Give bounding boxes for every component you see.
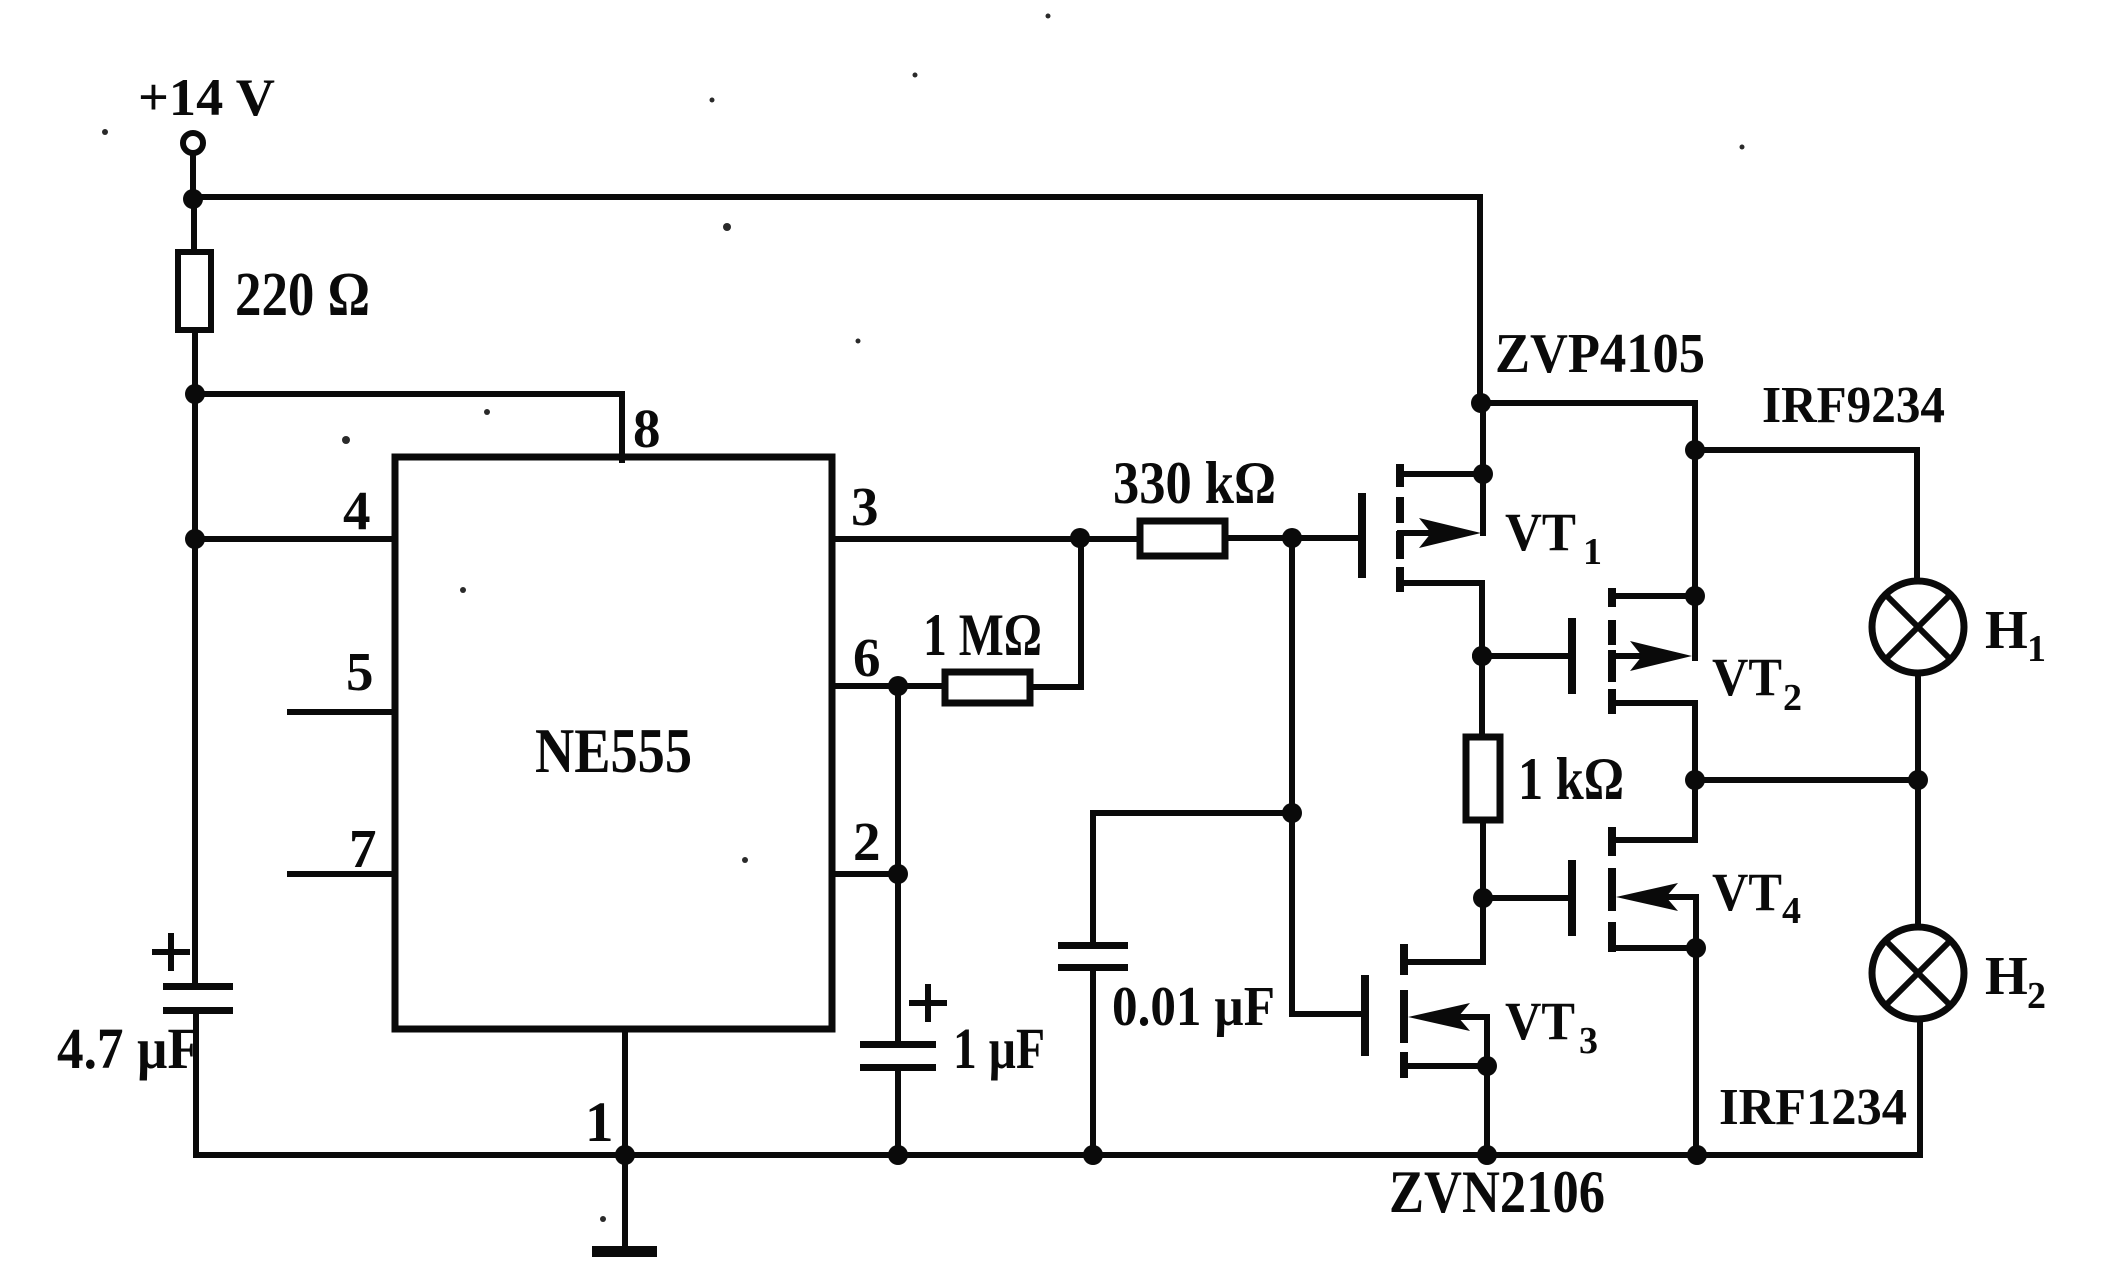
node VT4 source junction <box>1686 938 1706 958</box>
svg-text:IRF9234: IRF9234 <box>1762 377 1945 434</box>
wire H1 to mid node <box>1915 673 1921 927</box>
transistor VT3 bulk arrow <box>1440 1014 1487 1020</box>
wire R1 bottom down left bus <box>192 330 198 985</box>
node pin4 branch <box>185 529 205 549</box>
lamp H2 <box>1872 927 1964 1019</box>
node H1 branch <box>1685 440 1705 460</box>
transistor VT3 channel dashes <box>1400 944 1408 975</box>
transistor VT2 gate bar <box>1568 618 1576 694</box>
node pin1 rail junction <box>615 1145 635 1165</box>
power terminal +14V <box>183 133 203 153</box>
wire pin6 to pin2 vertical <box>895 686 901 1043</box>
node VT4 gate junction <box>1473 888 1493 908</box>
node VT2-VT4 lamp node <box>1685 770 1705 790</box>
svg-text:2: 2 <box>1783 677 1802 719</box>
node VT4 rail junction <box>1687 1145 1707 1165</box>
wire pin3 <box>832 536 1140 542</box>
svg-text:VT: VT <box>1505 991 1575 1051</box>
node C2 rail junction <box>888 1145 908 1165</box>
svg-text:1: 1 <box>585 1091 614 1154</box>
wire H2 to rail <box>1917 1019 1923 1155</box>
wire bottom ground rail <box>196 1152 1920 1158</box>
wire pin5 stub <box>290 709 395 715</box>
svg-text:4: 4 <box>343 480 371 541</box>
wire top supply rail <box>193 194 1480 200</box>
svg-text:VT: VT <box>1712 647 1782 707</box>
resistor 220 ohm <box>178 252 211 330</box>
resistor 1 Mohm <box>945 672 1030 703</box>
transistor VT3 ZVN2106 gate bar <box>1361 975 1369 1056</box>
svg-text:NE555: NE555 <box>535 715 692 786</box>
wire gate bus vertical <box>1289 538 1295 1014</box>
node VT2 top junction <box>1685 586 1705 606</box>
svg-text:1: 1 <box>2027 628 2046 670</box>
wire VT2 drain to VT4 drain <box>1692 703 1698 840</box>
transistor VT4 source contact <box>1612 945 1696 951</box>
svg-text:ZVP4105: ZVP4105 <box>1495 323 1705 385</box>
wire C3 top horizontal <box>1093 810 1292 816</box>
capacitor C1 4.7uF polarity plus <box>155 936 187 968</box>
svg-text:IRF1234: IRF1234 <box>1719 1079 1907 1136</box>
node C3 top junction <box>1282 803 1302 823</box>
wire drop to H branch <box>1692 403 1698 658</box>
node VT3 rail junction <box>1477 1145 1497 1165</box>
wire VT1 source up <box>1480 403 1486 533</box>
node ZVP4105 top junction <box>1471 393 1491 413</box>
transistor VT4 gate bar <box>1568 860 1576 936</box>
wire pin8 drop to IC <box>619 394 625 460</box>
wire C2 to rail <box>895 1071 901 1155</box>
lamp H1 <box>1872 581 1964 673</box>
svg-text:H: H <box>1985 945 2028 1006</box>
svg-text:3: 3 <box>1579 1020 1598 1062</box>
wire top node right <box>1481 400 1695 406</box>
node pin2 junction <box>888 864 908 884</box>
transistor VT4 drain contact <box>1612 837 1695 843</box>
node VT3 source junction <box>1477 1056 1497 1076</box>
wire H1 drop <box>1914 450 1920 581</box>
node VT1 source junction <box>1473 464 1493 484</box>
wire C3 to rail <box>1090 971 1096 1155</box>
svg-text:+14 V: +14 V <box>138 69 275 127</box>
wire supply drop right <box>1477 197 1483 403</box>
wire terminal drop <box>190 153 196 199</box>
resistor 330 kohm <box>1140 521 1225 556</box>
wire VT4 source down <box>1693 897 1699 1155</box>
svg-text:7: 7 <box>349 818 377 879</box>
transistor VT4 channel dashes <box>1608 827 1616 856</box>
wire 1M up to pin3 node <box>1078 538 1084 687</box>
svg-text:5: 5 <box>346 641 374 702</box>
capacitor C2 1uF polarity plus <box>912 987 944 1019</box>
transistor VT3 drain contact <box>1404 959 1483 965</box>
op IC NE555 body <box>395 457 832 1029</box>
transistor VT1 drain contact <box>1400 471 1483 477</box>
wire R 1k bottom to VT3 <box>1480 820 1486 962</box>
svg-text:0.01 µF: 0.01 µF <box>1112 976 1275 1038</box>
transistor VT1 bulk arrow <box>1400 530 1435 536</box>
transistor VT2 drain contact <box>1612 593 1695 599</box>
svg-text:220 Ω: 220 Ω <box>235 261 370 329</box>
resistor 1 kohm <box>1466 737 1500 820</box>
wire C3 top drop <box>1090 813 1096 944</box>
svg-text:H: H <box>1985 599 2028 660</box>
svg-text:6: 6 <box>853 627 881 688</box>
node pin6 junction <box>888 676 908 696</box>
transistor VT1 channel dashes <box>1396 464 1404 487</box>
svg-text:4.7 µF: 4.7 µF <box>57 1016 200 1081</box>
ground <box>592 1246 657 1257</box>
svg-text:VT: VT <box>1712 862 1782 922</box>
wire VT3 gate lead <box>1292 1011 1363 1017</box>
node pin8 branch <box>185 384 205 404</box>
svg-text:4: 4 <box>1782 890 1801 932</box>
wire pin1 drop <box>622 1029 628 1247</box>
svg-text:2: 2 <box>853 811 881 872</box>
scan speckles <box>102 14 1745 1223</box>
wire rail to R1 top <box>191 197 197 254</box>
svg-text:ZVN2106: ZVN2106 <box>1389 1159 1605 1225</box>
capacitor C1 4.7uF plates <box>163 983 233 990</box>
node VT2 gate tap <box>1472 646 1492 666</box>
svg-text:8: 8 <box>633 398 661 459</box>
node lamp mid junction <box>1908 770 1928 790</box>
capacitor C3 0.01uF plates <box>1058 942 1128 949</box>
transistor VT4 IRF1234 gate lead <box>1483 895 1570 901</box>
transistor VT2 IRF9234 gate lead <box>1483 653 1570 659</box>
node VT2 gate junction <box>1472 646 1492 666</box>
transistor VT2 channel dashes <box>1608 588 1616 607</box>
transistor VT1 source contact <box>1400 580 1482 586</box>
svg-text:1 kΩ: 1 kΩ <box>1518 746 1624 812</box>
svg-text:330 kΩ: 330 kΩ <box>1113 450 1276 516</box>
node C3 rail junction <box>1083 1145 1103 1165</box>
wire 330k to VT1 gate node <box>1225 535 1360 541</box>
wire H1 feed <box>1695 447 1917 453</box>
svg-text:2: 2 <box>2027 975 2046 1017</box>
wire pin7 stub <box>290 871 395 877</box>
node top-left junction <box>183 189 203 209</box>
svg-text:3: 3 <box>851 476 879 537</box>
transistor VT4 bulk arrow <box>1650 894 1696 900</box>
wire VT1 drain down to R 1k <box>1479 583 1485 739</box>
capacitor C2 1uF plates <box>860 1041 936 1048</box>
transistor VT3 source contact <box>1404 1063 1487 1069</box>
wire 1M right lead <box>1030 684 1081 690</box>
wire pin6 <box>832 683 945 689</box>
wire pin2 <box>832 871 898 877</box>
transistor VT2 bulk arrow <box>1612 653 1645 659</box>
svg-text:VT: VT <box>1505 502 1576 562</box>
wire pin4 <box>195 536 395 542</box>
wire VT3 source down <box>1484 1017 1490 1155</box>
svg-text:1 MΩ: 1 MΩ <box>923 602 1042 668</box>
wire pin8 horizontal <box>195 391 622 397</box>
svg-text:1 µF: 1 µF <box>953 1016 1045 1081</box>
transistor VT1 ZVP4105 gate bar <box>1358 493 1366 578</box>
node pin3 output junction <box>1070 528 1090 548</box>
node VT1 gate net <box>1282 528 1302 548</box>
wire mid node to VT2/VT4 <box>1695 777 1918 783</box>
svg-text:1: 1 <box>1583 531 1602 573</box>
wire C1 bottom to ground rail <box>193 1014 199 1155</box>
transistor VT2 source contact <box>1612 700 1695 706</box>
